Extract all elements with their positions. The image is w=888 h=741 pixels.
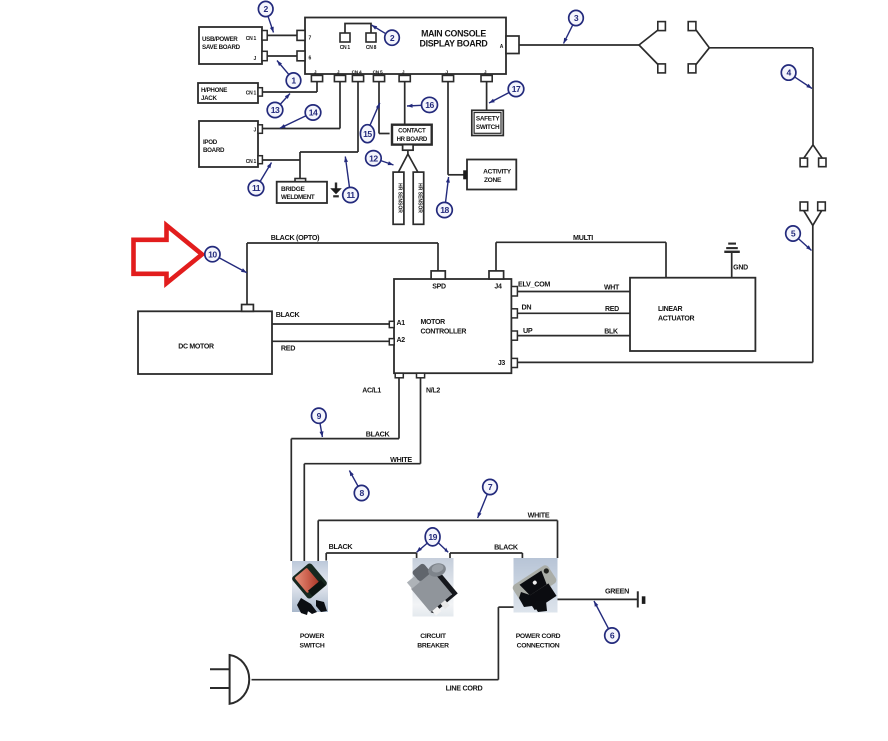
svg-text:BREAKER: BREAKER <box>417 643 449 650</box>
svg-text:CN 1: CN 1 <box>246 36 257 42</box>
svg-text:BRIDGE: BRIDGE <box>281 186 305 193</box>
svg-text:WELDMENT: WELDMENT <box>281 194 315 201</box>
svg-text:16: 16 <box>425 100 434 110</box>
svg-text:BLACK: BLACK <box>366 430 391 439</box>
svg-text:DISPLAY BOARD: DISPLAY BOARD <box>420 39 488 49</box>
svg-text:BLACK: BLACK <box>494 543 519 552</box>
svg-text:A1: A1 <box>397 320 406 327</box>
svg-text:MAIN CONSOLE: MAIN CONSOLE <box>421 29 486 39</box>
svg-text:DC MOTOR: DC MOTOR <box>178 344 214 351</box>
svg-text:CN 1: CN 1 <box>246 91 257 97</box>
svg-text:UP: UP <box>523 326 533 335</box>
svg-text:17: 17 <box>512 84 521 94</box>
svg-text:7: 7 <box>488 482 493 492</box>
svg-text:POWER CORD: POWER CORD <box>516 633 561 640</box>
svg-text:CONNECTION: CONNECTION <box>517 643 560 650</box>
svg-text:BLACK (OPTO): BLACK (OPTO) <box>271 233 320 242</box>
svg-text:15: 15 <box>363 129 372 139</box>
svg-text:1: 1 <box>291 76 296 86</box>
svg-text:ZONE: ZONE <box>484 177 502 184</box>
svg-text:WHITE: WHITE <box>390 455 412 464</box>
svg-text:CONTACT: CONTACT <box>398 128 426 135</box>
svg-text:12: 12 <box>369 153 378 163</box>
svg-text:BLACK: BLACK <box>276 310 301 319</box>
svg-text:CIRCUIT: CIRCUIT <box>420 633 447 640</box>
svg-text:AC/L1: AC/L1 <box>362 388 381 395</box>
svg-text:13: 13 <box>271 105 280 115</box>
svg-text:3: 3 <box>574 13 579 23</box>
svg-text:6: 6 <box>610 631 615 641</box>
svg-text:HR SENSOR: HR SENSOR <box>396 183 402 213</box>
svg-text:A2: A2 <box>397 337 406 344</box>
svg-text:4: 4 <box>786 68 791 78</box>
svg-text:SPD: SPD <box>432 284 446 291</box>
svg-text:RED: RED <box>605 306 619 313</box>
svg-text:LINEAR: LINEAR <box>658 306 683 313</box>
svg-text:11: 11 <box>346 190 355 200</box>
svg-text:CN 4: CN 4 <box>352 70 362 76</box>
svg-text:11: 11 <box>252 183 261 193</box>
svg-text:10: 10 <box>208 249 217 259</box>
svg-text:GREEN: GREEN <box>605 587 629 596</box>
svg-text:CONTROLLER: CONTROLLER <box>421 329 467 336</box>
svg-text:N/L2: N/L2 <box>426 388 440 395</box>
svg-text:MOTOR: MOTOR <box>421 319 446 326</box>
svg-text:MULTI: MULTI <box>573 233 593 242</box>
svg-text:GND: GND <box>733 265 748 272</box>
svg-text:BOARD: BOARD <box>203 147 225 154</box>
svg-text:POWER: POWER <box>300 633 325 640</box>
svg-text:CN 1: CN 1 <box>246 159 257 165</box>
svg-text:SWITCH: SWITCH <box>476 124 500 131</box>
svg-text:J3: J3 <box>498 360 506 367</box>
svg-text:2: 2 <box>264 4 269 14</box>
svg-text:JACK: JACK <box>201 95 217 102</box>
svg-text:CN 1: CN 1 <box>340 45 351 51</box>
svg-text:ACTIVITY: ACTIVITY <box>483 169 512 176</box>
svg-text:J4: J4 <box>494 284 502 291</box>
svg-text:WHITE: WHITE <box>528 511 550 520</box>
svg-text:LINE CORD: LINE CORD <box>446 684 483 693</box>
svg-text:19: 19 <box>428 532 437 542</box>
svg-text:HR BOARD: HR BOARD <box>397 136 428 143</box>
svg-text:BLK: BLK <box>604 329 618 336</box>
svg-text:CN 8: CN 8 <box>366 45 377 51</box>
svg-text:DN: DN <box>522 303 532 312</box>
svg-text:SAFETY: SAFETY <box>476 116 500 123</box>
svg-text:WHT: WHT <box>604 285 620 292</box>
svg-text:SWITCH: SWITCH <box>299 643 324 650</box>
svg-text:9: 9 <box>317 411 322 421</box>
svg-text:H/PHONE: H/PHONE <box>201 87 227 94</box>
svg-text:14: 14 <box>309 108 318 118</box>
svg-text:RED: RED <box>281 344 295 353</box>
svg-text:USB/POWER: USB/POWER <box>202 36 238 43</box>
svg-text:8: 8 <box>359 488 364 498</box>
svg-text:2: 2 <box>390 33 395 43</box>
svg-text:CN 5: CN 5 <box>373 70 383 76</box>
svg-text:SAVE BOARD: SAVE BOARD <box>202 44 241 51</box>
svg-text:ACTUATOR: ACTUATOR <box>658 316 694 323</box>
svg-text:HR SENSOR: HR SENSOR <box>416 183 422 213</box>
svg-text:IPOD: IPOD <box>203 139 218 146</box>
svg-text:ELV_COM: ELV_COM <box>518 280 550 289</box>
svg-text:BLACK: BLACK <box>329 542 354 551</box>
svg-text:18: 18 <box>440 205 449 215</box>
svg-text:5: 5 <box>791 229 796 239</box>
